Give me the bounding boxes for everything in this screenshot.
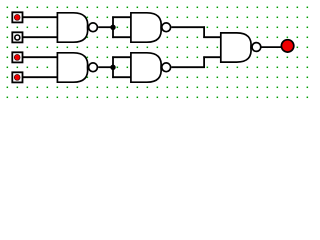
wire U1 output to node J1 bbox=[98, 26, 114, 28]
wire J2 to U4 input A bbox=[112, 56, 132, 58]
wire U2 output vertical jog down bbox=[203, 26, 205, 38]
wire pin X2 to U1 input B bbox=[23, 36, 58, 38]
input pin X2 (value 0) bbox=[12, 32, 22, 42]
nand gate U5 bbox=[221, 33, 261, 62]
nand gate U4 (inverter) bbox=[131, 53, 171, 82]
wire into U5 input B bbox=[203, 56, 221, 58]
wire pin X3 to U3 input A bbox=[23, 56, 58, 58]
wire U4 output horizontal bbox=[171, 66, 205, 68]
node J2 junction bbox=[110, 65, 115, 70]
wire J2 vertical split bbox=[112, 56, 114, 78]
node J1 junction bbox=[110, 25, 115, 30]
wire into U5 input A bbox=[203, 36, 221, 38]
nand gate U3 bbox=[57, 53, 97, 82]
wire U5 output to pin Y bbox=[262, 46, 282, 48]
wire pin X1 to U1 input A bbox=[23, 16, 58, 18]
nand gate U2 (inverter) bbox=[131, 13, 171, 42]
wire U2 output horizontal bbox=[171, 26, 205, 28]
wire pin X4 to U3 input B bbox=[23, 76, 58, 78]
wire J2 to U4 input B bbox=[112, 76, 132, 78]
output pin Y (value 1) bbox=[281, 40, 293, 52]
wire J1 to U2 input B bbox=[112, 36, 132, 38]
nand gate U1 bbox=[57, 13, 97, 42]
input pin X1 (value 1) bbox=[12, 12, 22, 22]
wire U4 output vertical jog up bbox=[203, 56, 205, 68]
input pin X3 (value 1) bbox=[12, 52, 22, 62]
wire J1 to U2 input A bbox=[112, 16, 132, 18]
wire J1 vertical split bbox=[112, 16, 114, 38]
wire U3 output to node J2 bbox=[98, 66, 114, 68]
input pin X4 (value 1) bbox=[12, 72, 22, 82]
